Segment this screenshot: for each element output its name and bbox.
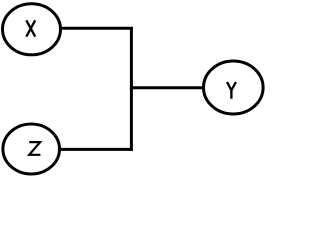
wire vertical junction column	[130, 27, 133, 151]
node X label	[26, 20, 35, 36]
wire from X to junction column	[60, 27, 133, 30]
node Y label	[227, 82, 236, 99]
node Z label	[29, 142, 40, 155]
wire from junction column to Y	[131, 86, 204, 89]
node Z ellipse	[3, 124, 60, 174]
node X ellipse	[3, 4, 61, 55]
node Y ellipse	[204, 61, 264, 114]
wire from Z to junction column	[60, 148, 133, 151]
